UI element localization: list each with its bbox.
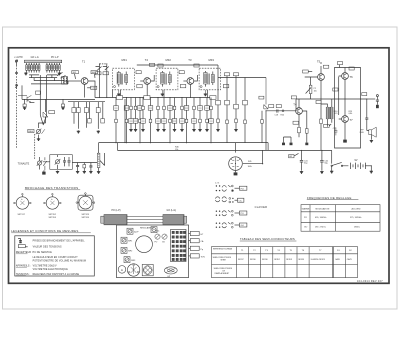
svg-text:SF352: SF352: [274, 259, 280, 261]
svg-text:LE REGULATEUR EN COURT-CIRCUIT: LE REGULATEUR EN COURT-CIRCUIT: [33, 256, 79, 259]
contact group 3: [216, 210, 234, 216]
label box GO: [235, 223, 247, 227]
ground chain RC15: [198, 129, 201, 132]
heading LEGENDES: [11, 229, 91, 233]
resistor on rail R10: [116, 96, 122, 100]
resistor/capacitor chain RC3: [129, 98, 134, 129]
oscillator coil L9: [62, 77, 68, 85]
volume potentiometer P1: [97, 143, 104, 171]
wire lower rail: [118, 143, 332, 164]
wire AGC line: [137, 65, 218, 78]
wire to REG: [39, 123, 46, 128]
wire base rail left: [22, 85, 95, 99]
svg-text:PU: PU: [241, 188, 244, 190]
junction: [199, 97, 200, 98]
svg-text:SFT352: SFT352: [49, 214, 57, 216]
connector grid: [171, 230, 187, 262]
resistor/capacitor chain RC5: [138, 98, 143, 144]
earphone jack J1: [367, 95, 379, 109]
svg-text:470: 470: [334, 113, 337, 115]
terminal blob b: [290, 143, 293, 146]
ground T7 emitter: [343, 140, 347, 143]
ground chain RC3: [129, 129, 132, 132]
wire pot wiper: [104, 153, 106, 162]
table semiconducteurs grid: [212, 247, 358, 278]
coupling capacitor C18: [275, 109, 285, 116]
svg-text:RELEVEES PAR RAPPORT A LA MASS: RELEVEES PAR RAPPORT A LA MASSE: [33, 273, 80, 276]
contact group 1: [216, 185, 234, 191]
svg-text:PO: PO: [304, 217, 307, 219]
ground socket: [234, 170, 238, 175]
junction: [99, 97, 100, 98]
speaker oval chassis: [164, 267, 177, 278]
pinout power transistor: [76, 193, 95, 211]
capacitor chain x262: [259, 96, 264, 142]
svg-text:VOLTMETRE ELECTRONIQUE: VOLTMETRE ELECTRONIQUE: [33, 269, 69, 271]
knob A: [118, 266, 126, 274]
wire T7 leads: [339, 99, 345, 140]
svg-text:TABLEAU DES SEMI-CONDUCTEURS: TABLEAU DES SEMI-CONDUCTEURS: [240, 237, 295, 241]
junction lower rail: [301, 150, 302, 151]
label box OC: [235, 198, 244, 202]
svg-text:GO: GO: [241, 225, 245, 227]
legend box: [15, 236, 95, 276]
resistor/capacitor chain RC9: [162, 98, 167, 129]
svg-text:SF353: SF353: [286, 259, 292, 261]
junction battery minus: [371, 165, 372, 166]
bias loop 3: [96, 102, 104, 129]
antenna coil L11: [56, 63, 58, 73]
heading TABLEAU DES SEMI-CONDUCTEURS: [240, 237, 297, 241]
ground MF2: [161, 93, 164, 96]
ground chain RC11: [173, 129, 176, 132]
wire output line: [296, 98, 367, 100]
svg-text:PRISES DE BRANCHEMENT DE L'APP: PRISES DE BRANCHEMENT DE L'APPAREIL: [33, 240, 86, 243]
svg-text:REG: REG: [28, 131, 33, 133]
value box osc2: [103, 72, 109, 75]
svg-text:OA79: OA79: [347, 258, 352, 261]
ferrite rod core: [127, 217, 163, 223]
junction spk node: [366, 98, 367, 99]
pinout driver transistor: [44, 193, 62, 209]
ground C39: [89, 171, 92, 174]
wire T5 emitter: [320, 80, 322, 150]
svg-text:15k: 15k: [175, 149, 178, 151]
antenna coil L1: [26, 63, 28, 73]
wire T1 emitter/collector: [85, 81, 95, 98]
svg-text:GO (L-G): GO (L-G): [167, 210, 177, 212]
svg-text:T4: T4: [293, 103, 297, 107]
antenna coil L5: [36, 63, 38, 73]
svg-text:HP: HP: [361, 129, 365, 131]
label box INT: [289, 153, 299, 158]
svg-text:SFT323: SFT323: [82, 214, 90, 216]
border frame: [9, 48, 390, 283]
value box near D3: [49, 111, 55, 114]
value box near T5: [303, 70, 313, 73]
svg-text:CLAVIER: CLAVIER: [255, 205, 268, 209]
junction: [190, 97, 191, 98]
value box out top: [337, 62, 342, 68]
capacitor C30 output: [365, 99, 368, 131]
tuning capacitor CV: [136, 236, 153, 253]
svg-text:OA70: OA70: [335, 258, 340, 261]
value box C02: [72, 71, 79, 79]
svg-text:SFT324: SFT324: [82, 217, 90, 219]
antenna coil L8: [49, 63, 51, 73]
transistor T4: [296, 108, 303, 115]
wire T5 base: [305, 77, 318, 83]
wire T5 collector: [320, 62, 322, 74]
transistor T1b arrows: [18, 95, 34, 102]
svg-text:T6: T6: [350, 75, 354, 79]
ferrite rod left coil: [101, 215, 127, 225]
svg-text:MF3: MF3: [209, 58, 215, 62]
resistor T4 emitter: [298, 127, 301, 137]
svg-text:SF359: SF359: [298, 259, 304, 261]
svg-text:OC: OC: [239, 200, 243, 202]
svg-text:PU DE SERVICE: PU DE SERVICE: [33, 252, 53, 254]
ground chain RC16: [205, 129, 208, 132]
legend jack symbol: [18, 238, 22, 243]
ground volume: [97, 171, 100, 174]
ground tone box: [56, 171, 59, 174]
bias loop 1: [72, 102, 80, 129]
wire socket top: [235, 143, 237, 153]
svg-text:PO: PO: [241, 213, 244, 215]
ground chain RC4: [134, 129, 137, 132]
wire mix vertical: [40, 75, 46, 125]
contact group 2: [215, 197, 233, 203]
antenna coil L12: [59, 63, 61, 73]
ground bias3: [97, 130, 100, 133]
electrolytic C42: [320, 150, 329, 170]
tab CAD: [189, 239, 204, 244]
tab PU: [189, 246, 203, 251]
table2 header row: [213, 248, 353, 253]
svg-text:MF2: MF2: [166, 58, 172, 62]
svg-text:BROCHAGE DES TRANSISTORS: BROCHAGE DES TRANSISTORS: [25, 186, 78, 190]
wire T3 leads: [190, 75, 197, 97]
resistor chain x236: [234, 78, 239, 129]
resistor chain x245: [243, 78, 248, 143]
svg-text:LEGENDES ET CONDITIONS DE: LEGENDES ET CONDITIONS DE MESURES: [11, 229, 78, 233]
wire audio takeoff: [72, 162, 98, 164]
value box MF1 side: [137, 84, 142, 87]
svg-text:2xSF324 /SF323: 2xSF324 /SF323: [311, 259, 325, 261]
resistor/capacitor chain RC17: [209, 98, 214, 144]
table2 row2: [213, 257, 352, 262]
loudspeaker HP: [367, 127, 376, 139]
svg-text:v. AUTO: v. AUTO: [14, 56, 23, 59]
diode D1 detector: [264, 78, 268, 109]
svg-text:TON: TON: [201, 256, 206, 258]
resistor chain x227: [225, 78, 230, 143]
antenna coil L9: [51, 63, 53, 73]
electrolytic C41: [300, 150, 309, 170]
value text R30: [334, 111, 338, 115]
svg-text:SERIE: SERIE: [221, 260, 227, 262]
resistor T5 em2: [320, 119, 323, 124]
resistor/capacitor chain RC6: [141, 98, 146, 129]
coupling capacitor C1: [15, 73, 18, 74]
terminal blob c: [305, 121, 308, 145]
resistor/capacitor chain RC1: [114, 98, 119, 144]
trimmer OSC PO: [155, 234, 161, 243]
wire T1 bias rail: [68, 101, 105, 103]
potentiometer tone: [37, 157, 47, 170]
legend line6: [16, 265, 31, 268]
heading FREQUENCES DE REGLAGE: [307, 196, 359, 200]
capacitor rect x306: [306, 129, 309, 134]
antenna coil L4: [33, 63, 35, 73]
capacitor C38: [76, 163, 79, 171]
ground x218: [216, 129, 219, 132]
table frequences header: [302, 207, 361, 210]
resistor/capacitor chain RC7: [148, 98, 153, 144]
value label socket: [248, 161, 252, 168]
resistor R1: [23, 99, 26, 106]
ferrite rod right coil: [163, 215, 187, 225]
svg-text:C27: C27: [333, 128, 336, 130]
ground chain RC14: [192, 129, 195, 132]
ground chain RC12: [180, 129, 183, 132]
potentiometer REG second arrow: [42, 129, 45, 134]
legend line3: [16, 252, 33, 254]
ground R2: [61, 107, 64, 110]
value box out right: [349, 67, 354, 70]
value box det3: [269, 105, 274, 108]
terminal blob a: [282, 137, 291, 145]
ground C38: [76, 171, 79, 174]
value box: [158, 64, 163, 67]
svg-text:REMPLACEMENT: REMPLACEMENT: [215, 272, 231, 275]
wire T4 leads: [299, 99, 307, 127]
legend box symbol: [18, 245, 27, 248]
wire socket to junction: [243, 150, 263, 163]
gang link dashed: [100, 63, 107, 65]
wire rail corner: [124, 99, 126, 143]
label box PU: [235, 186, 247, 190]
svg-text:SF317: SF317: [238, 259, 244, 261]
label box REG: [28, 129, 34, 133]
wire det down: [265, 111, 267, 151]
tab HP: [189, 231, 204, 236]
junction det: [265, 110, 266, 111]
junction: [126, 97, 127, 98]
chassis board outline: [117, 225, 189, 278]
svg-text:T2: T2: [145, 58, 149, 62]
wire T6 leads: [339, 68, 345, 100]
resistor/capacitor chain RC13: [184, 98, 189, 144]
ground x236: [234, 129, 237, 132]
svg-text:495, 1605Kc: 495, 1605Kc: [315, 217, 327, 219]
svg-text:GO: GO: [162, 241, 165, 243]
car antenna socket: [15, 60, 18, 65]
junction: [181, 97, 182, 98]
svg-text:50μ: 50μ: [324, 163, 327, 165]
ground antenna left: [24, 72, 27, 75]
ground tone pot: [42, 170, 45, 174]
value box BAN: [362, 93, 367, 96]
svg-text:Pq: Pq: [201, 249, 203, 251]
svg-text:SFT317: SFT317: [18, 214, 26, 216]
ground REG: [37, 138, 40, 141]
trimmer MF2: [121, 247, 133, 253]
wire detector to T4: [266, 110, 296, 112]
value box det1: [224, 73, 229, 78]
driver transformer TR1: [321, 99, 333, 127]
capacitor C39: [89, 163, 92, 171]
ground chain RC8: [156, 129, 159, 132]
capacitor box c40: [293, 121, 299, 124]
transistor T5: [318, 74, 325, 81]
svg-text:A: A: [121, 268, 123, 272]
table frequences grid: [301, 205, 380, 232]
ground R1: [23, 107, 26, 110]
antenna coil L2: [28, 63, 30, 73]
resistor/capacitor chain RC4: [133, 98, 138, 129]
trimmer AJ top: [151, 227, 157, 233]
battery 9V: [351, 159, 372, 169]
svg-text:MODULATION: MODULATION: [316, 207, 330, 210]
wire T2 base: [140, 80, 144, 82]
svg-text:6,8k: 6,8k: [349, 113, 353, 115]
ground switch: [330, 167, 333, 174]
value box det4: [276, 105, 281, 108]
car antenna dashed lead: [16, 65, 18, 149]
ground MF1: [117, 93, 120, 96]
potentiometer REG: [36, 129, 42, 138]
svg-text:SF316: SF316: [262, 259, 268, 261]
junction lower rail2: [321, 150, 322, 151]
trimmer MF3: [124, 257, 136, 263]
svg-text:185Kc: 185Kc: [354, 227, 360, 229]
svg-text:VALEUR DES TENSIONS: VALEUR DES TENSIONS: [33, 246, 62, 249]
value text R29: [349, 111, 353, 115]
value box B01: [91, 71, 98, 78]
svg-text:GO L-G: GO L-G: [31, 57, 39, 59]
antenna coil L3: [31, 63, 33, 73]
resistor chain x218: [216, 78, 221, 129]
svg-text:50μ: 50μ: [304, 163, 307, 165]
capacitor C36: [63, 157, 66, 166]
trimmer OSC GO: [162, 234, 167, 243]
antenna coil L7: [46, 63, 48, 73]
ground battery: [370, 166, 373, 173]
DIN socket PU: [229, 157, 243, 171]
label box PO: [235, 211, 247, 215]
resistor/capacitor chain RC12: [180, 98, 185, 129]
svg-text:REFERENCE SCHEMA: REFERENCE SCHEMA: [213, 248, 233, 251]
value box T5 top: [323, 65, 328, 68]
resistor on rail R22: [210, 96, 216, 100]
junction: [210, 97, 211, 98]
svg-text:187, 270 Kc: 187, 270 Kc: [315, 227, 326, 229]
IF transformer MF2: [156, 68, 178, 90]
junction: [157, 97, 158, 98]
junction: [115, 97, 116, 98]
wire T2 leads: [147, 75, 154, 97]
junction out node: [360, 98, 361, 99]
transistor T7: [342, 116, 349, 123]
svg-text:SFT353: SFT353: [49, 217, 57, 219]
wire detector line: [218, 77, 266, 79]
ground chain RC9: [162, 129, 165, 132]
value box MF3 side: [223, 84, 228, 87]
table2 row3: [214, 268, 233, 275]
wire coil drops: [32, 75, 55, 81]
svg-text:TONALITE: TONALITE: [18, 163, 30, 166]
dashed mech link: [34, 134, 36, 160]
plug symbol PU2: [15, 84, 18, 88]
junction x296: [295, 110, 296, 111]
svg-text:100k: 100k: [248, 166, 252, 168]
elco chassis: [142, 264, 153, 275]
svg-text:R45: R45: [248, 161, 251, 163]
svg-text:POTENTIOMETRE DE VOLUME AU MAX: POTENTIOMETRE DE VOLUME AU MAXIMUM: [33, 260, 86, 263]
wire coil bus: [29, 75, 65, 81]
wire osc link: [31, 81, 68, 84]
svg-text:9V: 9V: [355, 159, 358, 162]
value box C28: [324, 124, 332, 127]
ground chain RC6: [141, 129, 144, 132]
switch INT: [331, 162, 348, 166]
potentiometer volume aux: [55, 159, 61, 165]
svg-text:PO L-P: PO L-P: [51, 57, 59, 59]
capacitor C37: [68, 157, 71, 166]
svg-text:MF1: MF1: [122, 58, 128, 62]
svg-text:1 2 3: 1 2 3: [215, 183, 219, 185]
capacitor C27: [333, 127, 338, 135]
ground C41: [300, 171, 303, 174]
trimmer AJ PO: [127, 228, 139, 234]
table frequences row GO: [304, 227, 360, 229]
junction: [106, 97, 107, 98]
resistor/capacitor chain RC11: [172, 98, 177, 129]
value box: [136, 71, 141, 74]
ground antenna right: [58, 72, 61, 75]
svg-text:T5: T5: [317, 60, 321, 64]
svg-text:104-0014 REV 407: 104-0014 REV 407: [357, 280, 383, 283]
antenna coil L10: [54, 63, 56, 73]
tab TON: [189, 254, 206, 259]
svg-text:VOLTMETRE 20kΩ/V: VOLTMETRE 20kΩ/V: [33, 266, 57, 268]
svg-text:OSC: OSC: [155, 231, 160, 233]
bias loop 2: [84, 102, 91, 128]
svg-text:R20: R20: [281, 115, 284, 117]
resistor R2: [61, 99, 64, 106]
transistor T2: [144, 78, 151, 85]
wire tone out: [43, 155, 58, 170]
svg-text:25Ω: 25Ω: [360, 132, 364, 134]
svg-text:AJ.P: AJ.P: [134, 230, 139, 233]
volume pot P2: [306, 83, 317, 99]
svg-text:10k: 10k: [314, 90, 317, 92]
wire x296 drop: [295, 99, 297, 111]
resistor/capacitor chain RC16: [205, 98, 210, 129]
value box osc1: [95, 72, 101, 75]
resistor on rail R16: [144, 96, 150, 100]
ground R40: [83, 171, 86, 174]
IF transformer MF3: [199, 68, 221, 90]
junction: [147, 97, 148, 98]
wire T3 base: [183, 80, 187, 82]
ground speaker: [370, 140, 373, 143]
output loop wires: [335, 68, 361, 149]
value box above T4: [291, 96, 296, 99]
transistor socket chassis: [127, 264, 139, 276]
